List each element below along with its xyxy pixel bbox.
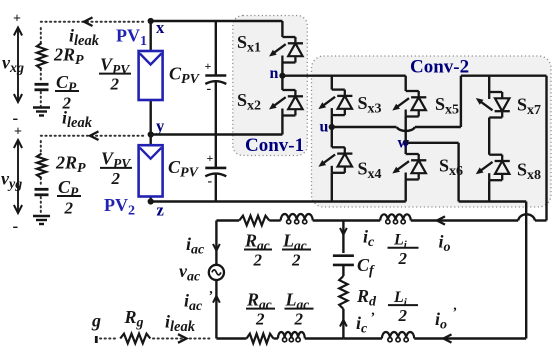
svg-text:Conv-2: Conv-2 [410, 57, 469, 78]
svg-text:y: y [156, 117, 165, 136]
svg-text:w: w [398, 135, 410, 152]
svg-text:2: 2 [398, 306, 408, 325]
svg-text:2: 2 [110, 75, 120, 94]
svg-text:Conv-1: Conv-1 [245, 135, 304, 156]
svg-text:’: ’ [370, 311, 375, 326]
svg-text:n: n [270, 65, 279, 82]
svg-text:g: g [91, 311, 101, 331]
svg-text:-: - [13, 217, 19, 236]
svg-text:z: z [157, 201, 164, 220]
svg-text:2: 2 [255, 310, 265, 329]
svg-text:-: - [207, 82, 212, 97]
svg-text:’: ’ [208, 289, 213, 304]
svg-text:+: + [13, 12, 21, 27]
svg-text:’: ’ [452, 306, 457, 321]
svg-text:2: 2 [253, 251, 263, 270]
svg-text:2: 2 [111, 169, 121, 188]
svg-text:+: + [205, 59, 212, 73]
svg-text:2: 2 [398, 249, 408, 268]
svg-text:2: 2 [64, 199, 74, 218]
svg-text:2: 2 [294, 310, 304, 329]
svg-text:+: + [207, 151, 214, 165]
svg-text:2: 2 [291, 251, 301, 270]
svg-text:+: + [14, 125, 22, 140]
svg-text:-: - [208, 174, 213, 189]
svg-text:u: u [320, 119, 329, 136]
